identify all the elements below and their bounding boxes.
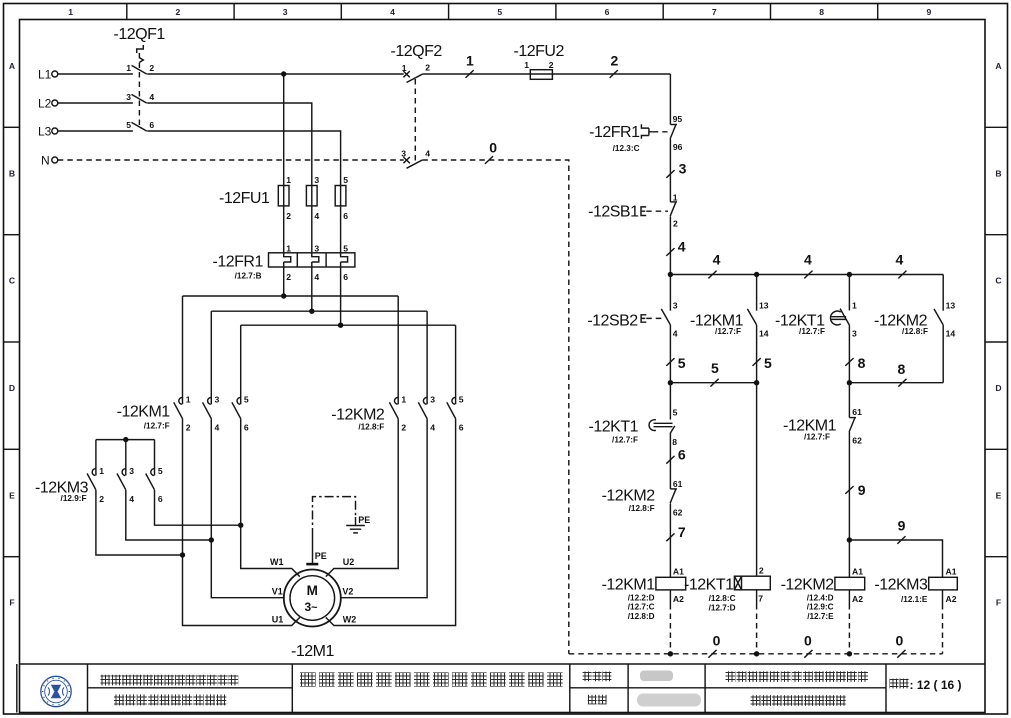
svg-text:L1: L1 <box>38 68 52 82</box>
svg-text:/12.8:D: /12.8:D <box>628 612 655 621</box>
title block lines <box>20 664 986 713</box>
wire L1 <box>58 71 671 76</box>
contactor KM3 pole 3-4 <box>117 440 134 504</box>
node control bus 4 <box>668 272 944 277</box>
SB1 label and actuator <box>588 204 668 221</box>
svg-text:2: 2 <box>401 423 406 433</box>
wire KM2 coil feed <box>848 540 850 577</box>
svg-text:PE: PE <box>358 515 370 525</box>
wire number 6 <box>666 447 686 464</box>
svg-text:61: 61 <box>673 479 683 489</box>
svg-text:3: 3 <box>852 328 857 338</box>
svg-text:0: 0 <box>896 632 904 648</box>
svg-text:6: 6 <box>605 7 610 17</box>
svg-text:C: C <box>995 276 1001 286</box>
svg-text:5: 5 <box>678 355 686 371</box>
svg-text:-12KM3: -12KM3 <box>874 577 928 594</box>
svg-text:5: 5 <box>343 244 348 254</box>
svg-text:B: B <box>995 168 1001 178</box>
FR1 heater 2 <box>312 244 320 282</box>
node bus 5 <box>668 380 760 385</box>
wire number 7 <box>666 524 686 541</box>
svg-text:4: 4 <box>215 423 220 433</box>
wire number 2 <box>610 52 619 78</box>
svg-text:/12.7:C: /12.7:C <box>628 603 655 612</box>
cell 页次 12(16) <box>890 678 962 692</box>
svg-text:/12.7:E: /12.7:E <box>807 612 834 621</box>
svg-text:2: 2 <box>759 566 764 576</box>
contactor KM3 pole 1-2 <box>87 440 104 504</box>
svg-text:4: 4 <box>129 494 134 504</box>
fuse FU1 pole 1 <box>278 175 291 221</box>
svg-text:7: 7 <box>712 7 717 17</box>
bus 4 wire numbers <box>708 252 906 279</box>
contactor KM1 pole 5-6 <box>232 325 249 432</box>
pushbutton SB1 (NC) <box>670 193 678 275</box>
svg-text:L2: L2 <box>38 97 52 111</box>
contactor KM1 pole 1-2 <box>174 296 191 433</box>
node branch 9 <box>847 537 943 577</box>
svg-text:A1: A1 <box>852 566 863 576</box>
svg-text:-12M1: -12M1 <box>291 643 334 660</box>
wire KM3-3 to W1 <box>155 490 241 525</box>
svg-text:8: 8 <box>819 7 824 17</box>
svg-text:4: 4 <box>896 252 904 268</box>
wire KM1-3 to motor W1 <box>238 419 300 577</box>
svg-text:1: 1 <box>852 300 857 310</box>
svg-text:8: 8 <box>672 437 677 447</box>
contactor KM2 pole 5-6 <box>447 325 464 432</box>
svg-text:4: 4 <box>149 92 154 102</box>
thermal contact FR1 95-96 <box>670 114 683 202</box>
zone grid ticks <box>4 4 1008 557</box>
svg-text:3: 3 <box>673 300 678 310</box>
FR1 control label <box>589 124 640 153</box>
svg-text:3: 3 <box>129 466 134 476</box>
svg-text:1: 1 <box>126 63 131 73</box>
wire number 3 <box>666 161 686 178</box>
svg-text:/12.7:F: /12.7:F <box>715 327 741 336</box>
svg-text:96: 96 <box>673 142 683 152</box>
motor M1 <box>284 570 341 627</box>
svg-text:-12FU1: -12FU1 <box>219 190 270 207</box>
svg-text:2: 2 <box>611 52 619 68</box>
blurred name <box>640 671 673 682</box>
svg-text:1: 1 <box>401 395 406 405</box>
breaker QF1 pole 3-4 <box>126 92 154 103</box>
aux contact KM1 13-14 <box>747 275 768 383</box>
svg-text:A2: A2 <box>852 594 863 604</box>
svg-text:3: 3 <box>126 92 131 102</box>
KM2 61-62 label <box>602 487 656 513</box>
svg-text:/12.7:F: /12.7:F <box>612 435 638 444</box>
wire fuse 1 to FR1 <box>283 206 285 253</box>
KT1 contact label <box>775 312 825 336</box>
svg-text:7: 7 <box>758 593 763 603</box>
breaker Q F1 mechanism <box>137 45 144 127</box>
KM1 61-62 label <box>783 417 837 441</box>
svg-text:5: 5 <box>244 395 249 405</box>
svg-text:62: 62 <box>852 435 862 445</box>
svg-text:/12.4:D: /12.4:D <box>807 593 834 602</box>
svg-text:-12KT1: -12KT1 <box>589 419 639 436</box>
svg-text:4: 4 <box>314 272 319 282</box>
bus 5 wire numbers <box>666 355 772 386</box>
svg-text:5: 5 <box>764 355 772 371</box>
svg-text:3~: 3~ <box>304 600 318 614</box>
coil KM2 <box>781 566 865 654</box>
svg-text:-12FU2: -12FU2 <box>514 43 565 60</box>
cell 机电一体化技术专业 <box>751 695 846 706</box>
svg-text:A2: A2 <box>946 594 957 604</box>
svg-text:14: 14 <box>946 328 956 338</box>
zone letters <box>9 61 1002 607</box>
svg-text:/12.8:F: /12.8:F <box>902 327 928 336</box>
svg-text:/12.2:D: /12.2:D <box>628 593 655 602</box>
svg-text:8: 8 <box>858 355 866 371</box>
svg-text:/12.9:C: /12.9:C <box>807 603 834 612</box>
svg-text:E: E <box>9 490 15 500</box>
svg-text:6: 6 <box>158 494 163 504</box>
svg-text:95: 95 <box>673 114 683 124</box>
blurred student id <box>637 694 701 707</box>
aux contact KM2 61-62 (NC) <box>670 479 683 577</box>
cell 学号 <box>588 695 607 705</box>
svg-text:3: 3 <box>215 395 220 405</box>
node L3 terminal <box>38 125 58 139</box>
svg-text:3: 3 <box>679 161 687 177</box>
svg-text:2: 2 <box>549 60 554 70</box>
svg-text:1: 1 <box>673 193 678 203</box>
svg-text:-12KM2: -12KM2 <box>331 407 385 424</box>
svg-text:9: 9 <box>927 7 932 17</box>
svg-text:3: 3 <box>430 395 435 405</box>
node KM3 star bus <box>96 437 155 442</box>
breaker QF2 pole 1-2 <box>402 63 430 83</box>
svg-text:A: A <box>9 61 15 71</box>
svg-text:-12KM1: -12KM1 <box>602 577 656 594</box>
wire KT1 coil feed <box>756 383 758 577</box>
PE chain conductor <box>313 497 356 537</box>
svg-text:1: 1 <box>99 466 104 476</box>
fuse FU2 <box>514 43 565 79</box>
wire number 9 (branch) <box>897 518 905 544</box>
svg-text:-12KM2: -12KM2 <box>602 487 656 504</box>
svg-text:4: 4 <box>425 149 430 159</box>
svg-text:5: 5 <box>459 395 464 405</box>
contactor KM3 pole 5-6 <box>146 440 163 504</box>
svg-text:2: 2 <box>176 7 181 17</box>
fuse FU1 pole 3 <box>335 175 348 221</box>
contactor KM2 pole 1-2 <box>389 296 406 433</box>
cell 制图人 <box>583 672 612 682</box>
svg-text:8: 8 <box>898 361 906 377</box>
svg-text:6: 6 <box>244 423 249 433</box>
svg-text:6: 6 <box>149 120 154 130</box>
fuse FU1 pole 2 <box>306 175 319 221</box>
svg-text:M: M <box>307 583 318 598</box>
wire number 4 <box>666 239 685 256</box>
svg-text:4: 4 <box>673 328 678 338</box>
svg-text:6: 6 <box>678 447 686 463</box>
coil KT1 <box>684 566 770 654</box>
svg-text:/12.9:F: /12.9:F <box>61 494 87 503</box>
svg-text:4: 4 <box>713 252 721 268</box>
svg-text:5: 5 <box>497 7 502 17</box>
svg-text:A1: A1 <box>673 566 684 576</box>
pushbutton SB2 (NO) <box>661 275 677 383</box>
svg-text:-12FR1: -12FR1 <box>213 254 264 271</box>
wire KM2-1 to motor U2 <box>326 419 398 577</box>
svg-text:3: 3 <box>314 175 319 185</box>
node bus 8 <box>847 380 944 385</box>
svg-text:2: 2 <box>149 63 154 73</box>
svg-text:1: 1 <box>466 52 474 68</box>
bus 0 wire numbers <box>708 632 905 657</box>
svg-text:D: D <box>9 383 15 393</box>
node bus W <box>241 323 456 328</box>
svg-text:9: 9 <box>898 518 906 534</box>
wire KM1-1 to motor U1 <box>180 419 300 626</box>
thermal relay FR1 box <box>269 253 355 267</box>
svg-text:5: 5 <box>711 360 719 376</box>
contactor KM1 pole 3-4 <box>203 311 220 432</box>
wire L3 <box>58 131 341 186</box>
SB2 label and actuator <box>587 312 664 329</box>
svg-text:4: 4 <box>678 239 686 255</box>
svg-text:A1: A1 <box>946 566 957 576</box>
svg-text:4: 4 <box>804 252 812 268</box>
coil KM3 <box>874 566 957 654</box>
svg-text:2: 2 <box>99 494 104 504</box>
svg-text:3: 3 <box>314 244 319 254</box>
svg-text:U2: U2 <box>343 557 355 567</box>
svg-text:/12.7:D: /12.7:D <box>709 604 736 613</box>
timed contact KT1 1-3 <box>840 275 857 383</box>
svg-text:E: E <box>996 490 1002 500</box>
wire KM1-61 feed <box>848 383 850 418</box>
FR1 actuator flag <box>641 124 667 139</box>
wire KM2-3 to motor W2 <box>326 419 456 626</box>
wire number 0 (N) <box>485 139 497 164</box>
contactor KM2 main label <box>331 407 385 432</box>
svg-text:2: 2 <box>286 272 291 282</box>
wire KM3-1 to U1 <box>96 490 183 555</box>
wire KM1-2 to motor V1 <box>209 419 284 598</box>
svg-text:W1: W1 <box>270 557 284 567</box>
svg-text:1: 1 <box>402 63 407 73</box>
svg-text:U1: U1 <box>272 615 284 625</box>
contactor KM3 label <box>35 480 89 504</box>
svg-text:5: 5 <box>673 407 678 417</box>
svg-text:-12QF1: -12QF1 <box>114 26 166 43</box>
wire KM2-2 to motor V2 <box>341 419 427 598</box>
svg-text:/12.3:C: /12.3:C <box>613 144 640 153</box>
svg-text:1: 1 <box>524 60 529 70</box>
wire fuse 2 to FR1 <box>311 206 313 253</box>
svg-text:6: 6 <box>343 211 348 221</box>
wire L2 <box>58 103 312 186</box>
svg-text:-12FR1: -12FR1 <box>589 124 640 141</box>
svg-text:13: 13 <box>759 300 769 310</box>
svg-text:-12KM2: -12KM2 <box>781 577 835 594</box>
svg-text:1: 1 <box>286 175 291 185</box>
svg-text:0: 0 <box>489 139 497 155</box>
svg-text:/12.1:E: /12.1:E <box>901 595 928 604</box>
svg-text:/12.8:F: /12.8:F <box>358 423 384 432</box>
svg-text:-12SB1: -12SB1 <box>588 204 639 221</box>
svg-text:-12KM1: -12KM1 <box>117 404 171 421</box>
svg-text:A: A <box>995 61 1001 71</box>
svg-text:2: 2 <box>673 218 678 228</box>
svg-text:A2: A2 <box>673 594 684 604</box>
svg-text:/12.7:F: /12.7:F <box>799 327 825 336</box>
svg-text:3: 3 <box>283 7 288 17</box>
svg-text:0: 0 <box>713 632 721 648</box>
svg-text:2: 2 <box>286 211 291 221</box>
wire fuse 3 to FR1 <box>340 206 342 253</box>
svg-text:1: 1 <box>286 244 291 254</box>
contactor KM2 pole 3-4 <box>418 311 435 432</box>
svg-text:4: 4 <box>390 7 395 17</box>
svg-text:61: 61 <box>852 407 862 417</box>
wire KM3-2 to V1 <box>126 490 212 540</box>
node N terminal <box>41 154 58 168</box>
zone numbers <box>68 7 931 17</box>
svg-text:5: 5 <box>158 466 163 476</box>
svg-text:9: 9 <box>858 482 866 498</box>
title block row2 text 苏州健雄职业技术学院 <box>114 694 226 705</box>
svg-text:/12.7:F: /12.7:F <box>804 433 830 442</box>
coil KM1 <box>602 566 686 654</box>
svg-text:2: 2 <box>425 63 430 73</box>
svg-text:1: 1 <box>186 395 191 405</box>
svg-text:-12KT1: -12KT1 <box>684 577 734 594</box>
node bus U <box>183 293 399 298</box>
node L1 terminal <box>38 68 58 82</box>
svg-text:C: C <box>9 276 15 286</box>
wire L1 drop <box>283 74 285 186</box>
FR1 heater 1 <box>284 244 292 282</box>
motor PE terminal <box>306 537 327 565</box>
node L2 terminal <box>38 97 58 111</box>
svg-text:4: 4 <box>314 211 319 221</box>
svg-text:/12.7:B: /12.7:B <box>235 272 262 281</box>
main title 双速异步电动机自动变速控制线路 <box>300 672 563 686</box>
motor terminal labels <box>270 557 356 625</box>
svg-text:L3: L3 <box>38 125 52 139</box>
svg-text:B: B <box>9 168 15 178</box>
ground PE <box>346 515 370 533</box>
KM2 13-14 label <box>874 312 928 336</box>
svg-text:14: 14 <box>759 328 769 338</box>
svg-text:V1: V1 <box>272 586 283 596</box>
svg-text:62: 62 <box>673 508 683 518</box>
wire number 9 (rail) <box>845 482 865 498</box>
school logo <box>41 676 71 706</box>
svg-text:2: 2 <box>186 423 191 433</box>
bus 8 wire numbers <box>845 355 906 386</box>
breaker QF2 link <box>414 79 416 164</box>
svg-text:0: 0 <box>804 632 812 648</box>
aux contact KM1 61-62 (NC) <box>849 407 862 540</box>
breaker QF1 pole 5-6 <box>126 120 154 131</box>
svg-text:7: 7 <box>678 524 686 540</box>
svg-text:F: F <box>9 598 14 608</box>
wire number 1 <box>466 52 475 78</box>
contactor KM1 main label <box>117 404 171 431</box>
cell 《电气安装规划与实施》课程 <box>726 671 869 682</box>
KM1 13-14 label <box>690 312 744 336</box>
wire FR1 outputs <box>284 267 341 325</box>
svg-text:PE: PE <box>315 551 327 561</box>
title block row1 text 电气安装规划与实施课程图纸 <box>101 675 239 686</box>
timed contact KT1 5-8 <box>649 383 678 489</box>
svg-text:5: 5 <box>126 120 131 130</box>
aux contact KM2 13-14 <box>934 275 955 383</box>
svg-text:N: N <box>41 154 50 168</box>
wire N (dashed) <box>58 160 569 654</box>
KT1 delay symbol <box>830 311 846 325</box>
breaker QF1 pole 1-2 <box>126 63 154 74</box>
svg-text:5: 5 <box>343 175 348 185</box>
svg-text:V2: V2 <box>342 586 353 596</box>
node bus 0 (dashed) <box>569 651 943 656</box>
svg-text:3: 3 <box>401 149 406 159</box>
wire control feed <box>669 74 671 125</box>
svg-text:4: 4 <box>430 423 435 433</box>
svg-text:-12SB2: -12SB2 <box>587 312 638 329</box>
svg-text:/12.7:F: /12.7:F <box>144 422 170 431</box>
node bus V <box>211 309 427 314</box>
svg-text:F: F <box>996 598 1001 608</box>
svg-text:13: 13 <box>946 300 956 310</box>
svg-text:/12.8:C: /12.8:C <box>709 594 736 603</box>
svg-text:1: 1 <box>68 7 73 17</box>
thermal relay FR1 label <box>213 254 264 281</box>
FR1 heater 3 <box>341 244 349 282</box>
svg-text:/12.8:F: /12.8:F <box>629 504 655 513</box>
svg-text:6: 6 <box>459 423 464 433</box>
breaker QF2 pole 3-4 <box>401 149 430 169</box>
svg-text:-12QF2: -12QF2 <box>391 43 443 60</box>
svg-text:W2: W2 <box>343 615 357 625</box>
svg-text:6: 6 <box>343 272 348 282</box>
svg-text:: 12 ( 16 ): : 12 ( 16 ) <box>910 678 962 692</box>
KT1 5-8 label <box>589 419 639 445</box>
svg-text:D: D <box>995 383 1001 393</box>
